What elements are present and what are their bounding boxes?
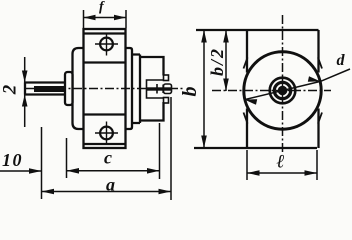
dimension f xyxy=(84,10,127,28)
dimension 10 line xyxy=(0,168,42,174)
rear terminal bump top xyxy=(164,75,169,81)
label a xyxy=(106,175,115,195)
dimension a line xyxy=(42,189,172,195)
rear bearing boss xyxy=(147,80,164,98)
label f xyxy=(99,0,105,15)
label l xyxy=(276,152,284,173)
label 10 xyxy=(2,150,23,170)
rear step plate xyxy=(132,55,140,124)
svg-text:d: d xyxy=(337,52,346,69)
corner chamfer marks xyxy=(244,58,323,124)
dimension b/2 xyxy=(223,30,229,91)
dimension c line xyxy=(67,168,160,174)
shaft dark band (flat) xyxy=(34,86,65,92)
svg-text:c: c xyxy=(104,148,112,168)
svg-text:ℓ: ℓ xyxy=(276,152,284,173)
shaft center dot xyxy=(278,86,288,96)
left view centerline xyxy=(25,88,183,90)
horizontal centerline right view xyxy=(212,90,331,92)
extension line x66.5 xyxy=(66,138,68,178)
dimension d diagonal xyxy=(245,69,350,105)
shaft xyxy=(25,83,65,95)
big face circle xyxy=(244,52,321,129)
rear stub dark band xyxy=(147,87,171,90)
rear end bell xyxy=(140,57,164,121)
bottom bracket hole crosshair xyxy=(95,122,118,145)
label 2 xyxy=(0,84,21,95)
dimension z=2 (shaft dia) xyxy=(22,57,28,127)
label c xyxy=(104,148,112,168)
svg-text:10: 10 xyxy=(2,150,23,170)
dimension b xyxy=(201,30,207,148)
motor body (left view, stator outline) xyxy=(73,48,133,129)
extension line x159.5 xyxy=(159,123,161,179)
svg-text:b: b xyxy=(179,87,201,97)
label d xyxy=(337,52,346,69)
dimension i xyxy=(247,150,317,180)
extension line x41.5 xyxy=(41,127,43,199)
front hub xyxy=(65,72,73,105)
label b xyxy=(179,87,201,97)
label b/2 xyxy=(207,47,227,76)
svg-text:b/2: b/2 xyxy=(207,47,227,76)
rear terminal bump bottom xyxy=(164,98,169,104)
extension line x171 xyxy=(170,97,172,200)
vertical centerline right view xyxy=(282,15,284,152)
svg-text:a: a xyxy=(106,175,115,195)
svg-text:2: 2 xyxy=(0,84,21,95)
right view square body xyxy=(194,30,319,148)
mounting bracket column xyxy=(84,29,126,148)
hub ring outer xyxy=(270,78,296,104)
top bracket hole crosshair xyxy=(95,33,118,56)
rear shaft stub xyxy=(164,84,172,94)
svg-text:f: f xyxy=(99,0,105,15)
hub ring inner xyxy=(274,82,290,98)
